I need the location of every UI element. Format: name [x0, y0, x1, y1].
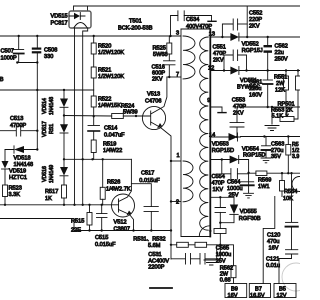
- wire gnd corner down: [170, 231, 172, 260]
- diode VD554: [230, 156, 239, 164]
- svg-text:C562: C562: [275, 44, 288, 50]
- wire line y159: [64, 158, 131, 160]
- svg-text:12K: 12K: [275, 88, 285, 94]
- transformer aux winding 1-2: [183, 161, 193, 202]
- optocoupler U VD515 PC817 box: [69, 11, 91, 28]
- wire pin9: [210, 107, 222, 112]
- terminal B9: [225, 284, 247, 298]
- svg-text:T501: T501: [129, 19, 142, 25]
- svg-text:35V: 35V: [271, 154, 281, 160]
- optocoupler phototransistor: [74, 23, 87, 28]
- svg-text:C551: C551: [213, 45, 226, 51]
- diode VD551: [230, 67, 239, 75]
- svg-text:1: 1: [177, 153, 180, 159]
- capacitor C564: [241, 181, 254, 183]
- diode VD519 zener: [4, 150, 6, 162]
- transformer secondary winding: [200, 37, 209, 230]
- capacitor C515: [101, 205, 103, 214]
- resistor R565: [287, 137, 289, 145]
- wire base line y116: [64, 115, 151, 118]
- capacitor C120: [286, 221, 298, 223]
- capacitor C121: [286, 250, 298, 254]
- svg-text:4700P: 4700P: [10, 123, 26, 129]
- svg-text:C507: C507: [1, 49, 14, 55]
- resistor R525: [168, 36, 170, 43]
- wire primary gnd bus y230: [0, 219, 171, 231]
- svg-text:470P: 470P: [213, 51, 226, 57]
- svg-text:1/4W15K: 1/4W15K: [98, 103, 121, 109]
- svg-text:RGF30B: RGF30B: [239, 216, 261, 222]
- svg-text:C565: C565: [216, 245, 229, 251]
- svg-text:R515: R515: [71, 219, 84, 225]
- svg-text:5.6M: 5.6M: [148, 243, 161, 249]
- svg-text:C121: C121: [266, 256, 279, 262]
- capacitor C516: [168, 54, 170, 61]
- optocoupler LED: [69, 15, 85, 17]
- svg-text:BCK-200-53B: BCK-200-53B: [118, 26, 153, 32]
- wire column x37 down: [36, 63, 38, 150]
- svg-text:VD516: VD516: [42, 166, 48, 182]
- svg-text:R521: R521: [98, 68, 111, 74]
- capacitor C508 330: [36, 36, 38, 48]
- svg-text:250V: 250V: [275, 57, 288, 63]
- svg-text:C513: C513: [10, 116, 23, 122]
- wire base bus y204: [0, 204, 119, 206]
- resistor R523: [3, 185, 8, 197]
- resistor R520: [93, 36, 95, 43]
- transistor V513 C4706: [142, 106, 165, 129]
- resistor R517: [62, 185, 67, 198]
- svg-text:16V: 16V: [269, 246, 279, 252]
- svg-text:330: 330: [44, 54, 53, 60]
- svg-text:7: 7: [176, 72, 179, 78]
- svg-text:R520: R520: [98, 44, 111, 50]
- svg-text:470P: 470P: [233, 104, 246, 110]
- wire opto pin jog: [87, 6, 89, 11]
- svg-text:R525: R525: [153, 46, 166, 52]
- svg-text:PC817: PC817: [51, 21, 68, 27]
- diode VD552: [230, 33, 239, 41]
- svg-text:1/2W120K: 1/2W120K: [98, 74, 124, 80]
- wire bus y90: [0, 89, 94, 91]
- svg-text:C564: C564: [227, 180, 240, 186]
- capacitor C562: [267, 37, 269, 45]
- svg-text:1/4W22: 1/4W22: [103, 148, 122, 154]
- svg-text:VD552: VD552: [242, 42, 259, 48]
- capacitor C565: [219, 197, 221, 207]
- svg-text:0.015uF: 0.015uF: [139, 178, 160, 184]
- resistor right edge: [297, 71, 299, 77]
- wire bottom bar: [150, 287, 172, 289]
- svg-text:R522: R522: [98, 97, 111, 103]
- node top feedback to B+: [246, 6, 248, 37]
- resistor R524: [112, 114, 124, 119]
- capacitor C517: [131, 184, 151, 207]
- capacitor C507: [18, 36, 20, 49]
- diode VD518: [5, 149, 37, 151]
- svg-text:R517: R517: [45, 189, 58, 195]
- svg-text:C552: C552: [249, 11, 262, 17]
- wire main B+ bus y36: [0, 35, 181, 37]
- diode VD516: [60, 167, 68, 176]
- svg-text:R519: R519: [103, 142, 116, 148]
- capacitor C554: [222, 160, 231, 174]
- svg-text:R531、R532: R531、R532: [133, 237, 165, 243]
- transformer T501 outline: [181, 28, 210, 30]
- svg-text:0.68: 0.68: [220, 278, 231, 284]
- svg-text:VD553: VD553: [212, 142, 229, 148]
- svg-text:C514: C514: [104, 126, 117, 132]
- capacitor C553: [236, 107, 238, 122]
- resistor R526: [102, 159, 104, 187]
- svg-text:13: 13: [209, 32, 215, 38]
- svg-text:3: 3: [176, 31, 179, 37]
- svg-text:1/2W120K: 1/2W120K: [98, 50, 124, 56]
- capacitor C514: [88, 125, 100, 127]
- terminal B7: [249, 284, 270, 298]
- svg-text:2W: 2W: [276, 81, 285, 87]
- svg-text:1W1: 1W1: [258, 184, 270, 190]
- wire top feedback line: [74, 6, 301, 11]
- svg-text:R564: R564: [284, 189, 297, 195]
- svg-text:3.3K: 3.3K: [9, 192, 21, 198]
- svg-text:RS1: RS1: [49, 124, 55, 134]
- svg-text:B5: B5: [279, 287, 286, 293]
- svg-text:VD519: VD519: [9, 169, 26, 175]
- svg-text:VD518: VD518: [14, 156, 31, 162]
- svg-text:5W68: 5W68: [153, 52, 168, 58]
- wire C120 chain: [291, 173, 293, 222]
- svg-text:C508: C508: [44, 48, 57, 54]
- wire pin14 / VD553: [210, 136, 228, 138]
- transformer primary winding 3-7: [183, 36, 195, 79]
- wire opto left pin down: [74, 28, 76, 205]
- ground secondary: [271, 107, 273, 124]
- svg-text:470u: 470u: [267, 239, 279, 245]
- resistor R515: [89, 205, 91, 213]
- ground C563: [261, 158, 271, 163]
- capacitor C551 snubber: [224, 55, 233, 71]
- wire secondary bus y107: [237, 106, 300, 108]
- svg-text:VD514: VD514: [42, 98, 48, 114]
- ground C564: [244, 193, 254, 198]
- svg-text:R569: R569: [258, 178, 271, 184]
- svg-text:16.5V: 16.5V: [250, 293, 265, 299]
- capacitor C552 snubber: [222, 24, 233, 37]
- capacitor C561: [267, 71, 269, 80]
- wire pin2: [171, 201, 181, 203]
- svg-text:VD555: VD555: [240, 209, 257, 215]
- svg-text:2200P: 2200P: [148, 265, 164, 271]
- fuse box: [214, 229, 226, 234]
- svg-text:1000u: 1000u: [227, 186, 243, 192]
- svg-text:2KV: 2KV: [249, 24, 260, 30]
- svg-text:C561: C561: [249, 80, 262, 86]
- svg-text:R551: R551: [274, 75, 287, 81]
- svg-text:R523: R523: [9, 186, 22, 192]
- resistor R551: [285, 71, 287, 77]
- svg-text:160V: 160V: [249, 93, 262, 99]
- svg-text:12: 12: [208, 66, 214, 72]
- svg-text:B: B: [0, 77, 4, 83]
- wire pin13 / VD552: [210, 36, 230, 38]
- svg-text:0.01u: 0.01u: [266, 263, 280, 269]
- svg-text:220u: 220u: [249, 86, 261, 92]
- resistor R564: [281, 173, 283, 180]
- svg-text:2KV: 2KV: [233, 110, 244, 116]
- svg-text:RGP15J: RGP15J: [242, 48, 263, 54]
- diode VD553: [229, 133, 238, 141]
- svg-text:1N4148: 1N4148: [14, 162, 34, 168]
- svg-text:2: 2: [176, 200, 179, 206]
- svg-text:C515: C515: [95, 235, 108, 241]
- wire pin b / VD554: [210, 159, 229, 161]
- svg-text:22u: 22u: [275, 50, 284, 56]
- wire opto right pin down: [83, 28, 88, 205]
- svg-text:V513: V513: [147, 92, 160, 98]
- resistor R519: [91, 140, 96, 153]
- svg-text:270u: 270u: [271, 148, 283, 154]
- resistor R562: [220, 245, 233, 266]
- svg-text:C554: C554: [212, 174, 225, 180]
- svg-text:0.015uF: 0.015uF: [95, 242, 116, 248]
- svg-text:V512: V512: [114, 220, 127, 226]
- svg-text:C553: C553: [232, 98, 245, 104]
- svg-text:25V: 25V: [216, 258, 226, 264]
- resistor R522: [93, 78, 95, 96]
- svg-text:3.9: 3.9: [292, 154, 299, 160]
- svg-text:C563: C563: [271, 142, 284, 148]
- svg-text:22E: 22E: [71, 228, 81, 234]
- svg-text:1000u: 1000u: [216, 252, 232, 258]
- svg-text:2KV: 2KV: [152, 77, 163, 83]
- svg-text:C534: C534: [186, 17, 199, 23]
- capacitor C563: [265, 137, 267, 146]
- svg-text:VD515: VD515: [51, 14, 68, 20]
- svg-text:VD517: VD517: [42, 121, 48, 137]
- svg-text:2KV: 2KV: [213, 58, 224, 64]
- svg-text:RGP15D: RGP15D: [212, 148, 234, 154]
- svg-text:B7: B7: [255, 287, 262, 293]
- svg-text:1N4148: 1N4148: [49, 97, 55, 115]
- svg-text:B9: B9: [231, 287, 238, 293]
- ghost circle: [282, 263, 310, 291]
- svg-text:1N4149: 1N4149: [49, 165, 55, 183]
- svg-text:VD554: VD554: [242, 147, 259, 153]
- svg-text:12V: 12V: [277, 293, 287, 299]
- svg-text:470P: 470P: [212, 181, 225, 187]
- diode VD555: [230, 205, 238, 215]
- svg-text:C120: C120: [267, 233, 280, 239]
- resistor R521: [93, 54, 95, 67]
- transistor V512 C3807: [112, 194, 135, 217]
- svg-text:C517: C517: [141, 171, 154, 177]
- svg-text:0.047uF: 0.047uF: [104, 133, 125, 139]
- wire pin12 / VD551: [210, 70, 230, 72]
- svg-text:14: 14: [209, 133, 215, 139]
- ground secondary bottom: [204, 260, 219, 265]
- transformer corner winding arc: [199, 226, 210, 236]
- svg-text:5W39: 5W39: [123, 110, 138, 116]
- svg-text:AC400V: AC400V: [148, 258, 169, 264]
- capacitor C534: [171, 16, 178, 37]
- wire pin1: [171, 160, 181, 162]
- wire B7 riser jog: [263, 197, 275, 284]
- transistor partial right edge: [292, 177, 307, 192]
- resistor R569: [256, 171, 267, 176]
- svg-text:1000P: 1000P: [1, 56, 17, 62]
- capacitor C531: [171, 245, 217, 259]
- diode VD517: [60, 124, 68, 132]
- svg-text:C531: C531: [148, 252, 161, 258]
- svg-text:9: 9: [207, 98, 210, 104]
- svg-text:R526: R526: [107, 180, 120, 186]
- capacitor C513: [0, 130, 37, 132]
- terminal B5: [274, 284, 296, 298]
- svg-text:C4706: C4706: [145, 99, 161, 105]
- svg-text:220P: 220P: [249, 17, 262, 23]
- wire pin c / VD555: [210, 197, 234, 204]
- wire caps join: [17, 62, 37, 64]
- diode VD514: [63, 90, 65, 99]
- svg-text:1K: 1K: [45, 196, 52, 202]
- wire pin7: [167, 76, 181, 78]
- svg-text:1/4W2.7K: 1/4W2.7K: [106, 187, 131, 193]
- svg-text:16V: 16V: [228, 293, 238, 299]
- svg-text:C3807: C3807: [114, 226, 130, 232]
- svg-text:HZTC1: HZTC1: [9, 175, 27, 181]
- svg-text:1KV: 1KV: [213, 187, 224, 193]
